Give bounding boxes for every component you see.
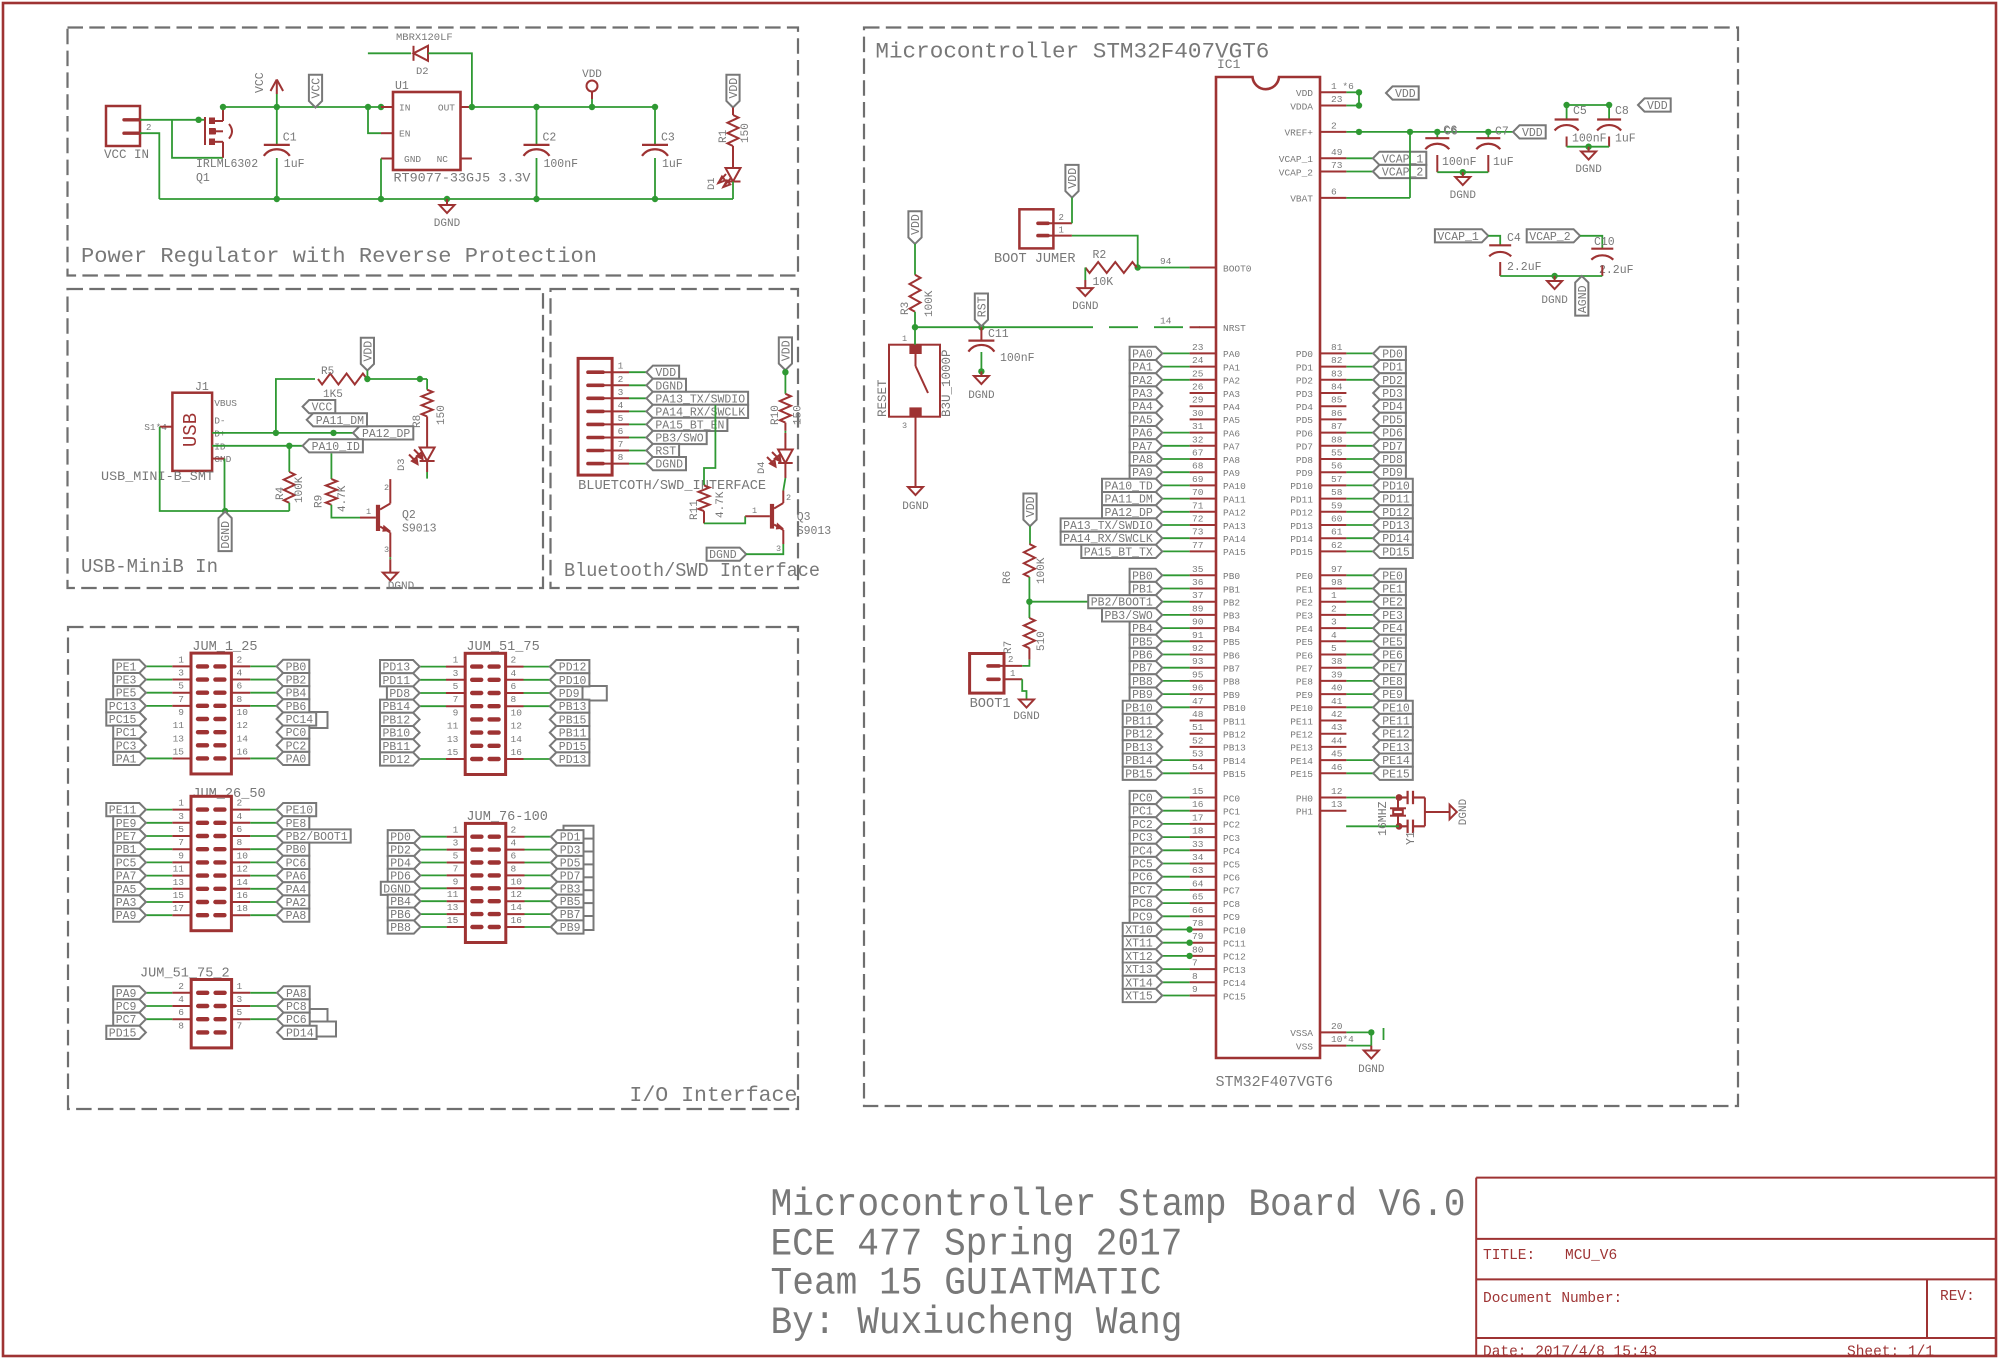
flag PC5 [1130, 857, 1163, 872]
flag PB15 [550, 713, 590, 728]
flag PB9 [1130, 688, 1163, 703]
svg-text:12: 12 [511, 721, 523, 732]
JUM_1_25 left stub 2 [172, 692, 191, 694]
svg-text:55: 55 [1331, 448, 1343, 459]
wire JUM_76-100 left 0 [420, 836, 446, 838]
svg-text:PC7: PC7 [1223, 886, 1240, 897]
wire JUM_76-100 right 2 [525, 862, 551, 864]
svg-text:46: 46 [1331, 762, 1343, 773]
connector BOOT1 [970, 654, 1004, 694]
wire net PE8 [1346, 680, 1373, 682]
wire JUM_76-100 left 1 [420, 849, 446, 851]
svg-text:JUM_26_50: JUM_26_50 [192, 787, 265, 802]
JUM_1_25 right stub 0 [231, 665, 250, 667]
JUM_76-100 pin mark R0 [490, 835, 499, 839]
flag PA6 [1130, 426, 1163, 441]
wire net PC9 [1162, 915, 1189, 917]
flag PA5 [1130, 413, 1163, 428]
junction D+ extra [330, 430, 336, 436]
svg-text:PA0: PA0 [1223, 349, 1240, 360]
wire BT pin 8 [629, 463, 646, 465]
flag PA8 [1130, 452, 1163, 467]
flag PC9 [1130, 910, 1163, 925]
ground DGND reset [908, 487, 923, 495]
BOOT1 pin2 mark [988, 664, 999, 668]
flag PB4 [277, 686, 310, 701]
svg-text:Microcontroller Stamp Board V6: Microcontroller Stamp Board V6.0 [771, 1183, 1466, 1227]
svg-text:VBAT: VBAT [1290, 194, 1313, 205]
section box: I/O Interface [68, 627, 798, 1109]
svg-text:3: 3 [384, 545, 389, 555]
IC1 pin 78 PC10 stub [1190, 929, 1216, 931]
junction C1/VCC [274, 104, 280, 110]
svg-text:PB3: PB3 [1223, 611, 1240, 622]
wire net PB14 [1162, 759, 1189, 761]
wire BT pin 2 [629, 384, 646, 386]
R2 dgnd lead [1084, 280, 1086, 288]
BT header pin 4 lead [603, 410, 629, 412]
C10 bottom lead [1601, 266, 1603, 277]
IC1 pin 65 PC8 stub [1190, 902, 1216, 904]
JUM_26_50 left stub 8 [172, 914, 191, 916]
U1 pin stub GND [381, 158, 393, 160]
svg-text:2: 2 [511, 825, 517, 836]
JUM_76-100 pin mark L2 [472, 860, 481, 864]
svg-text:68: 68 [1192, 461, 1204, 472]
BT header pin 5 mark [588, 423, 603, 427]
svg-text:13: 13 [1331, 799, 1343, 810]
flag PC8 [1130, 897, 1163, 912]
svg-text:DGND: DGND [1450, 190, 1477, 202]
svg-text:Y1: Y1 [1405, 831, 1418, 845]
BT header pin 7 lead [603, 450, 629, 452]
junction U1 IN stub [378, 104, 384, 110]
svg-text:13: 13 [173, 877, 185, 888]
svg-text:VCAP_1: VCAP_1 [1437, 231, 1479, 244]
flag PD13 [1373, 518, 1413, 533]
svg-text:NRST: NRST [1223, 323, 1246, 334]
wire VCC_IN pin2 down to ground bus [140, 133, 159, 199]
IC1 pin 77 PA15 stub [1190, 550, 1216, 552]
svg-text:PH0: PH0 [1296, 793, 1313, 804]
svg-text:BLUETCOTH/SWD_INTERFACE: BLUETCOTH/SWD_INTERFACE [578, 479, 766, 494]
flag PD12 [550, 660, 590, 675]
svg-text:USB_MINI-B_SMT: USB_MINI-B_SMT [101, 470, 215, 484]
wire C5-C8 ground tie [1567, 146, 1610, 148]
IC1 pin 73 VCAP_2 stub [1320, 171, 1346, 173]
connector JUM_1_25 [191, 653, 231, 774]
svg-text:23: 23 [1192, 342, 1204, 353]
IC1 pin 25 PA2 stub [1190, 379, 1216, 381]
JUM_76-100 pin mark R7 [490, 925, 499, 929]
connector BLUETOOTH header [578, 358, 612, 475]
svg-text:5: 5 [453, 681, 459, 692]
svg-text:R1: R1 [718, 129, 730, 143]
flag PC15 [106, 712, 146, 727]
svg-text:DGND: DGND [388, 581, 415, 593]
svg-text:3: 3 [453, 668, 459, 679]
DGND stem [446, 199, 448, 205]
JUM_76-100 extra label box 1 [564, 839, 594, 853]
svg-text:15: 15 [173, 890, 185, 901]
svg-text:14: 14 [1160, 316, 1172, 327]
svg-text:PE10: PE10 [1290, 703, 1313, 714]
svg-text:510: 510 [1036, 631, 1048, 651]
svg-text:R2: R2 [1093, 249, 1107, 262]
flag PE10 [1373, 701, 1413, 716]
wire net PD9 [1346, 471, 1373, 473]
wire vssa-vss tie [1370, 1032, 1372, 1045]
LED D1 lead [732, 146, 734, 168]
svg-text:1: 1 [366, 507, 371, 517]
flag PE5 [1373, 635, 1406, 650]
svg-text:C11: C11 [988, 328, 1009, 341]
svg-text:70: 70 [1192, 487, 1204, 498]
svg-text:41: 41 [1331, 696, 1343, 707]
IC1 pin 85 PD4 stub [1320, 405, 1346, 407]
wire net PD7 [1346, 445, 1373, 447]
svg-text:2: 2 [1331, 603, 1337, 614]
svg-text:2: 2 [237, 654, 243, 665]
BOOT1 pin2 lead [999, 665, 1022, 667]
IC1 pin 38 PE7 stub [1320, 667, 1346, 669]
wire net PA15 [1162, 550, 1189, 552]
svg-text:PB9: PB9 [1223, 690, 1240, 701]
svg-text:3: 3 [776, 544, 781, 554]
wire to U1 EN [368, 107, 381, 133]
junction C2 bottom [533, 196, 539, 202]
wire JUM_26_50 right 5 [250, 875, 276, 877]
svg-text:IRLML6302: IRLML6302 [196, 158, 258, 171]
svg-text:150: 150 [740, 123, 752, 143]
wire C7 top lead [1487, 132, 1489, 138]
connector BOOT JUMER [1019, 209, 1053, 248]
svg-text:PA8: PA8 [286, 910, 307, 923]
flag VDD r3 [908, 211, 923, 244]
svg-text:150: 150 [793, 405, 805, 425]
resistor R6 [1024, 544, 1035, 577]
svg-text:VDD: VDD [582, 69, 602, 81]
svg-text:82: 82 [1331, 355, 1343, 366]
svg-text:10: 10 [511, 707, 523, 718]
wire net U1 IN rail [223, 106, 381, 108]
resistor R10 [780, 394, 791, 423]
IC1 pin 36 PB1 stub [1190, 588, 1216, 590]
svg-text:PC6: PC6 [1223, 873, 1240, 884]
wire net PC5 [1162, 863, 1189, 865]
svg-text:6: 6 [1331, 186, 1337, 197]
JUM_76-100 pin mark R6 [490, 912, 499, 916]
wire net PA10 [1162, 484, 1189, 486]
svg-text:DGND: DGND [709, 549, 737, 562]
svg-text:14: 14 [237, 733, 249, 744]
JUM_1_25 pin mark R7 [215, 756, 224, 760]
wire JUM_1_25 right 1 [250, 679, 276, 681]
JUM_51_75_2 pin mark L3 [198, 1030, 207, 1034]
capacitor C3 [642, 145, 668, 156]
svg-text:PD8: PD8 [1296, 455, 1313, 466]
JUM_26_50 right stub 8 [231, 914, 250, 916]
svg-text:PC9: PC9 [1223, 912, 1240, 923]
flag PA0 [277, 752, 310, 767]
JUM_51_75 pin mark L5 [472, 730, 481, 734]
ground DGND c5c8 [1581, 152, 1596, 160]
JUM_51_75 pin mark R6 [490, 744, 499, 748]
wire net PA13 [1162, 524, 1189, 526]
JUM_1_25 pin mark L4 [198, 717, 207, 721]
svg-text:VDDA: VDDA [1290, 101, 1313, 112]
junction crystal cap2 [1396, 823, 1403, 830]
wire JUM_76-100 right 0 [525, 836, 551, 838]
section box: Power Regulator [68, 28, 799, 276]
wire JUM_51_75 left 7 [420, 758, 446, 760]
wire NRST dashed [1064, 326, 1200, 328]
flag VCAP_2 [1373, 165, 1426, 180]
svg-text:60: 60 [1331, 514, 1343, 525]
LED D1 [718, 168, 741, 187]
IC1 pin 94 BOOT0 stub [1190, 267, 1216, 269]
junction C8 top [1606, 102, 1612, 108]
IC1 pin 1 PE2 stub [1320, 601, 1346, 603]
wire net PB8 [1162, 680, 1189, 682]
IC1 pin 89 PB3 stub [1190, 614, 1216, 616]
wire net PB9 [1162, 693, 1189, 695]
flag PE4 [1373, 622, 1406, 637]
junction C3 top [652, 104, 658, 110]
junction near R8 [417, 376, 423, 382]
flag PE9 [113, 816, 146, 831]
flag PD7 [1373, 439, 1406, 454]
svg-text:RT9077-33GJ5 3.3V: RT9077-33GJ5 3.3V [394, 172, 532, 186]
svg-text:10*4: 10*4 [1331, 1034, 1354, 1045]
flag XT14 [1123, 976, 1163, 991]
svg-text:PA4: PA4 [1223, 402, 1240, 413]
BOOT1 pin1 lead [1004, 678, 1022, 680]
svg-text:VDD: VDD [1647, 100, 1668, 113]
JUM_1_25 pin mark R1 [215, 677, 224, 681]
svg-text:2: 2 [618, 374, 624, 385]
svg-text:PD13: PD13 [559, 754, 587, 767]
JUM_26_50 left stub 6 [172, 888, 191, 890]
JUM_76-100 pin mark R3 [490, 873, 499, 877]
wire JUM_76-100 right 7 [525, 926, 551, 928]
svg-text:6: 6 [511, 681, 517, 692]
wire net PC8 [1162, 902, 1189, 904]
flag VDD mcu top [1386, 86, 1419, 101]
svg-text:PB15: PB15 [1125, 768, 1153, 781]
JUM_76-100 extra label box 4 [564, 877, 594, 891]
svg-text:PA7: PA7 [1223, 442, 1240, 453]
JUM_26_50 pin mark L3 [198, 847, 207, 851]
svg-text:1: 1 [902, 334, 907, 344]
wire net PB15 [1162, 772, 1189, 774]
svg-text:13: 13 [447, 902, 459, 913]
wire VCAP_1 to C4 [1488, 236, 1500, 246]
IC1 pin 64 PC7 stub [1190, 889, 1216, 891]
flag PA1 [1130, 360, 1163, 375]
JUM_51_75_2 left stub 1 [172, 1005, 191, 1007]
IC1 pin 88 PD7 stub [1320, 445, 1346, 447]
BOOT JUMER pin2 lead [1048, 222, 1072, 224]
svg-text:58: 58 [1331, 487, 1343, 498]
flag PB8 [388, 920, 421, 935]
wire node to R7 [1028, 602, 1030, 618]
JUM_51_75 left stub 7 [446, 758, 465, 760]
flag PC14 [277, 712, 317, 727]
svg-text:97: 97 [1331, 564, 1342, 575]
wire net PA2 [1162, 379, 1189, 381]
svg-text:R6: R6 [1002, 571, 1014, 584]
svg-text:D2: D2 [416, 66, 429, 78]
svg-text:71: 71 [1192, 500, 1204, 511]
svg-text:8: 8 [178, 1020, 184, 1031]
svg-text:2: 2 [1331, 120, 1337, 131]
flag PE8 [1373, 674, 1406, 689]
flag RST bt7 [646, 444, 679, 459]
IC1 pin 55 PD8 stub [1320, 458, 1346, 460]
svg-text:PC4: PC4 [1223, 846, 1240, 857]
JUM_76-100 extra label box 5 [564, 890, 594, 904]
svg-text:1 *6: 1 *6 [1331, 81, 1354, 92]
wire net VCAP_2 [1346, 171, 1373, 173]
connector JUM_51_75 [465, 653, 505, 774]
svg-text:VDD: VDD [362, 341, 375, 362]
svg-text:20: 20 [1331, 1021, 1343, 1032]
wire C8 lead [1608, 105, 1610, 120]
JUM_26_50 left stub 2 [172, 835, 191, 837]
wire JUM_26_50 right 0 [250, 809, 276, 811]
svg-text:11: 11 [447, 889, 459, 900]
JUM_76-100 pin mark R1 [490, 847, 499, 851]
svg-text:16: 16 [511, 915, 523, 926]
svg-text:100nF: 100nF [544, 158, 579, 171]
JUM_26_50 pin mark R5 [215, 873, 224, 877]
flag PB0 [277, 660, 310, 675]
JUM_51_75 left stub 1 [446, 679, 465, 681]
flag PB6 [277, 699, 310, 714]
JUM_26_50 right stub 5 [231, 875, 250, 877]
svg-text:72: 72 [1192, 514, 1204, 525]
svg-text:23: 23 [1331, 94, 1343, 105]
svg-text:36: 36 [1192, 577, 1204, 588]
connector J1 USB [172, 393, 212, 471]
svg-text:73: 73 [1192, 527, 1204, 538]
flag DGND bt [707, 548, 747, 563]
S1 bottom lead [915, 417, 917, 487]
U1 pin stub NC [461, 158, 472, 160]
wire net PE14 [1346, 759, 1373, 761]
ground DGND vss [1364, 1051, 1379, 1059]
svg-text:R3: R3 [900, 302, 912, 315]
svg-text:PE3: PE3 [1296, 611, 1313, 622]
svg-text:DGND: DGND [1072, 301, 1099, 313]
svg-text:16: 16 [237, 746, 249, 757]
resistor R5 [318, 374, 367, 385]
svg-text:7: 7 [1192, 958, 1198, 969]
JUM_76-100 pin mark L6 [472, 912, 481, 916]
JUM_26_50 pin mark R0 [215, 807, 224, 811]
svg-text:PA11_DM: PA11_DM [316, 415, 364, 428]
junction VDD flag [364, 376, 370, 382]
JUM_1_25 pin mark L6 [198, 743, 207, 747]
flag PB3/SWO [1102, 608, 1162, 623]
IC1 pin 6 VBAT stub [1320, 197, 1346, 199]
svg-text:STM32F407VGT6: STM32F407VGT6 [1216, 1074, 1334, 1091]
svg-text:Power Regulator with Reverse P: Power Regulator with Reverse Protection [81, 245, 597, 269]
flag PC2 [1130, 817, 1163, 832]
flag PD2 [1373, 373, 1406, 388]
wire JUM_76-100 left 3 [420, 874, 446, 876]
svg-text:1uF: 1uF [1493, 156, 1514, 169]
IC1 pin 43 PE12 stub [1320, 733, 1346, 735]
JUM_51_75_2 pin mark L0 [198, 991, 207, 995]
JUM_26_50 right stub 0 [231, 809, 250, 811]
svg-text:PB10: PB10 [1223, 703, 1246, 714]
wire JUM_51_75 left 2 [420, 692, 446, 694]
JUM_51_75 extra label box 2 [577, 686, 607, 701]
svg-text:96: 96 [1192, 683, 1204, 694]
capacitor C7 [1476, 138, 1500, 149]
svg-text:4: 4 [178, 994, 184, 1005]
JUM_51_75 pin mark L1 [472, 678, 481, 682]
wire net PE10 [1346, 706, 1373, 708]
svg-text:81: 81 [1331, 342, 1343, 353]
svg-text:By: Wuxiucheng Wang: By: Wuxiucheng Wang [771, 1301, 1183, 1345]
flag PB3 [551, 882, 584, 897]
svg-text:3: 3 [453, 838, 459, 849]
flag PD8 [387, 686, 420, 701]
flag PD7 [551, 869, 584, 884]
IC1 pin 9 PC15 stub [1190, 995, 1216, 997]
svg-text:NC: NC [437, 154, 449, 165]
wire LED D1 to bus [732, 182, 734, 200]
svg-text:Q3: Q3 [797, 511, 811, 524]
IC1 pin 61 PD14 stub [1320, 537, 1346, 539]
wire R11 to Q3 base [704, 516, 745, 523]
JUM_26_50 right stub 6 [231, 888, 250, 890]
svg-text:PE15: PE15 [1382, 768, 1410, 781]
IC1 pin 60 PD13 stub [1320, 524, 1346, 526]
svg-text:90: 90 [1192, 617, 1204, 628]
svg-text:Team 15 GUIATMATIC: Team 15 GUIATMATIC [771, 1262, 1162, 1306]
wire JUM_26_50 left 4 [146, 861, 172, 863]
capacitor C2 [524, 145, 550, 156]
wire net PE7 [1346, 667, 1373, 669]
junction DGND stub [444, 196, 450, 202]
junction dgnd vcap [1551, 273, 1557, 279]
svg-text:Microcontroller STM32F407VGT6: Microcontroller STM32F407VGT6 [875, 40, 1269, 65]
flag PC7 [113, 1013, 146, 1028]
wire JUM_26_50 right 8 [250, 914, 276, 916]
wire net PA14 [1162, 537, 1189, 539]
LED D4 to Q3 collector [784, 463, 786, 478]
wire net PA0 [1162, 352, 1189, 354]
svg-text:IC1: IC1 [1217, 57, 1241, 72]
flag PD11 [380, 673, 420, 688]
JUM_26_50 pin mark L0 [198, 807, 207, 811]
wire JUM_26_50 right 1 [250, 822, 276, 824]
wire JUM_76-100 left 2 [420, 862, 446, 864]
svg-text:6: 6 [178, 1007, 184, 1018]
JUM_51_75_2 pin mark L2 [198, 1017, 207, 1021]
flag PB11 [1123, 714, 1163, 729]
JUM_51_75_2 pin mark R1 [216, 1004, 225, 1008]
wire VBAT riser [1409, 132, 1411, 198]
wire VCC arrow stem [276, 94, 278, 107]
svg-text:PE6: PE6 [1296, 650, 1313, 661]
svg-text:PA12: PA12 [1223, 508, 1246, 519]
wire BT pin 1 [629, 371, 646, 373]
